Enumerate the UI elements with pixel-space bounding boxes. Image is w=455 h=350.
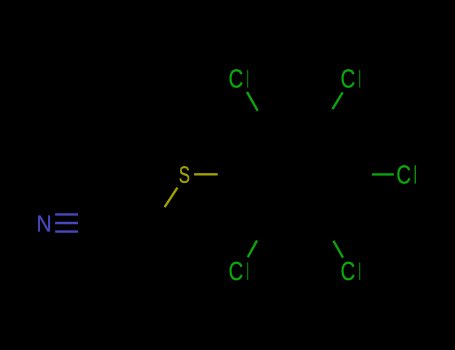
nitrile triple bond, middle line — [55, 222, 78, 224]
svg-text:l: l — [414, 162, 417, 190]
bond C6-Cl bottom-left, chlorine half — [248, 240, 257, 257]
bond C2-Cl top-left, chlorine half — [247, 92, 258, 111]
svg-text:C: C — [340, 64, 355, 93]
svg-text:l: l — [359, 66, 361, 93]
bond C5-Cl bottom-right, chlorine half — [333, 241, 343, 258]
bond C3-Cl top-right, chlorine half — [332, 92, 342, 109]
bond C4-Cl right, chlorine half — [372, 173, 394, 175]
svg-text:S: S — [179, 162, 190, 189]
svg-text:l: l — [247, 258, 249, 285]
svg-text:N: N — [36, 211, 51, 237]
nitrile triple bond N#C - blue N-half, top line — [55, 213, 78, 215]
bond S-C1(ipso), sulfur half (horizontal) — [194, 173, 218, 175]
svg-text:C: C — [228, 257, 243, 286]
svg-text:C: C — [228, 64, 243, 93]
svg-text:l: l — [359, 258, 361, 285]
svg-text:l: l — [247, 66, 249, 93]
bond S-CH2, sulfur half (diagonal) — [165, 188, 178, 207]
svg-text:C: C — [340, 257, 355, 286]
nitrile triple bond, bottom line — [55, 230, 78, 232]
svg-text:C: C — [396, 160, 411, 189]
